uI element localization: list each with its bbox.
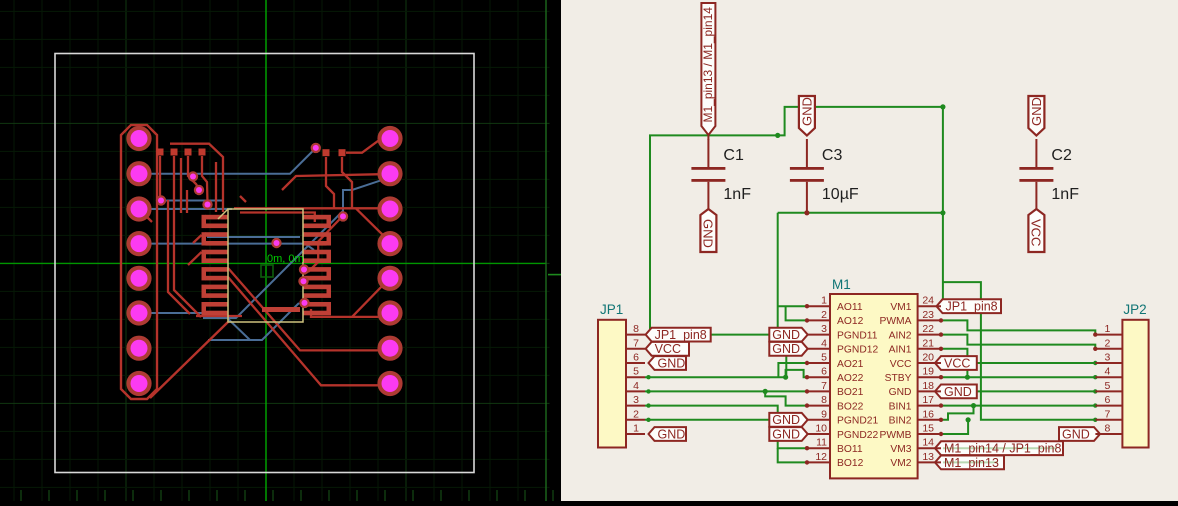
M1 right wire dots (939, 318, 943, 322)
blue trace pad L4 row (139, 244, 314, 250)
SMD bottom bar (262, 307, 300, 312)
supply flag GND above C3 (799, 96, 815, 136)
svg-text:7: 7 (821, 380, 827, 392)
svg-text:24: 24 (922, 295, 934, 307)
wire end dots JP1 (646, 375, 650, 379)
label GND at M1 pin 3 (769, 328, 807, 342)
svg-text:19: 19 (922, 366, 934, 378)
svg-text:15: 15 (922, 423, 934, 435)
svg-text:PGND22: PGND22 (837, 430, 878, 441)
svg-text:16: 16 (922, 408, 934, 420)
wire M1 pin17 to JP2 pin6 (941, 405, 1095, 407)
svg-text:4: 4 (633, 380, 639, 392)
JP2 pin 8 (1095, 433, 1122, 435)
wire (778, 107, 943, 135)
svg-text:AIN1: AIN1 (889, 345, 912, 356)
M1 pin 21 (AIN1) (918, 348, 941, 350)
wire M1 pin22 to JP2 pin2 (941, 335, 1095, 349)
capacitor C1 (707, 139, 709, 168)
svg-text:2: 2 (633, 408, 639, 420)
trace from square 4 (202, 156, 208, 202)
trace big diagonal (150, 322, 228, 398)
svg-text:VM1: VM1 (890, 302, 911, 313)
wire M1 pin15 jog (941, 420, 968, 434)
vias (156, 195, 166, 205)
wire (943, 282, 1095, 420)
wire (777, 213, 779, 330)
svg-text:BIN2: BIN2 (889, 416, 912, 427)
trace to pad R3 (240, 196, 246, 202)
svg-text:6: 6 (633, 352, 639, 364)
svg-text:PGND21: PGND21 (837, 416, 878, 427)
blue trace pad R2 long diagonal (203, 178, 388, 318)
M1 pin 2 (AO12) (807, 319, 830, 321)
trace from square 2 (174, 156, 201, 317)
svg-text:9: 9 (821, 408, 827, 420)
M1 pin 8 (BO22) (807, 405, 830, 407)
svg-text:8: 8 (1105, 423, 1111, 435)
svg-text:7: 7 (1105, 408, 1111, 420)
blue trace (161, 200, 224, 202)
M1 left wire dots (805, 304, 809, 308)
svg-text:STBY: STBY (885, 373, 912, 384)
JP1 pin 7 (626, 348, 645, 350)
svg-text:GND: GND (772, 413, 800, 427)
trace top-right to pad R1 (346, 139, 390, 153)
board outline (55, 54, 474, 473)
svg-text:4: 4 (1105, 366, 1111, 378)
label GND at JP2 pin 8 (1059, 427, 1100, 441)
svg-text:GND: GND (701, 219, 716, 248)
square pads top-right (323, 149, 330, 156)
JP1 pin 2 (626, 419, 645, 421)
svg-text:VM3: VM3 (890, 444, 911, 455)
blue trace pad L6 (139, 313, 250, 340)
wire JP1 pin5 row (645, 376, 786, 378)
M1 pin 22 (AIN2) (918, 334, 941, 336)
trace outline around left pads (121, 125, 157, 399)
svg-text:3: 3 (633, 394, 639, 406)
svg-text:VCC: VCC (944, 356, 970, 370)
wire M1 pin19 to JP2 pin4 (941, 376, 1095, 378)
JP2 pin 5 (1095, 390, 1122, 392)
wire JP1 pin8 to GND flag (711, 334, 770, 336)
svg-text:GND: GND (772, 342, 800, 356)
svg-text:GND: GND (799, 97, 814, 126)
svg-text:1nF: 1nF (1051, 186, 1079, 203)
svg-text:1nF: 1nF (723, 186, 751, 203)
label GND at M1 pin 4 (769, 342, 807, 356)
wire right vertical (942, 107, 944, 299)
trace diagonal bundle to pad R8 (228, 277, 390, 385)
svg-text:5: 5 (1105, 380, 1111, 392)
svg-text:1: 1 (821, 295, 827, 307)
wire jog to M1 pin8 (765, 391, 806, 405)
JP2 pin 1 (1095, 334, 1122, 336)
svg-text:6: 6 (1105, 394, 1111, 406)
svg-text:JP1_pin8: JP1_pin8 (655, 328, 707, 342)
wire VCC to JP2 pin3 (977, 362, 1096, 364)
IC footprint SMD pads left (206, 215, 229, 220)
svg-text:12: 12 (815, 451, 827, 463)
svg-text:13: 13 (922, 451, 934, 463)
svg-text:AIN2: AIN2 (889, 330, 912, 341)
label GND at M1 pin 10 (769, 427, 807, 441)
wire JP1 pin2 row (645, 419, 778, 421)
svg-text:JP1_pin8: JP1_pin8 (946, 300, 998, 314)
label GND at M1 pin 18 (935, 385, 977, 399)
origin marker (261, 265, 273, 277)
M1 pin 23 (PWMA) (918, 319, 941, 321)
wire to M1 pin1 (778, 305, 806, 307)
svg-text:AO22: AO22 (837, 373, 864, 384)
JP2 pin 4 (1095, 376, 1122, 378)
svg-text:VM2: VM2 (890, 458, 911, 469)
M1 pin 7 (BO21) (807, 390, 830, 392)
trace pad R5 (352, 278, 390, 317)
svg-text:17: 17 (922, 394, 934, 406)
JP1 pin 5 (626, 376, 645, 378)
svg-text:M1_pin13 / M1_pin14: M1_pin13 / M1_pin14 (701, 7, 715, 123)
svg-text:PWMA: PWMA (879, 316, 911, 327)
trace pad L3 stub (139, 209, 152, 222)
svg-text:AO11: AO11 (837, 302, 863, 313)
svg-text:PGND11: PGND11 (837, 330, 878, 341)
wire M1 pin21 down (941, 349, 967, 377)
M1 pin 5 (AO21) (807, 362, 830, 364)
svg-text:GND: GND (1029, 97, 1044, 126)
svg-text:M1_pin14 / JP1_pin8: M1_pin14 / JP1_pin8 (944, 442, 1061, 456)
svg-text:GND: GND (772, 328, 800, 342)
trace from square 1 (159, 156, 161, 197)
label VCC at JP1 pin 7 (646, 342, 689, 356)
wire (778, 212, 943, 214)
blue trace pad L2 to via (139, 148, 316, 174)
blue trace via diagonal (208, 303, 299, 340)
svg-text:0m, 0m: 0m, 0m (267, 253, 304, 265)
svg-text:M1: M1 (832, 277, 851, 292)
svg-text:GND: GND (944, 385, 972, 399)
trace from square 3 (188, 156, 199, 189)
svg-text:VCC: VCC (655, 342, 681, 356)
square pads top-left (157, 149, 164, 156)
M1 pin 18 (GND) (918, 390, 941, 392)
svg-text:GND: GND (658, 356, 686, 370)
svg-text:3: 3 (821, 323, 827, 335)
svg-text:JP2: JP2 (1123, 302, 1146, 317)
M1 pin 17 (BIN1) (918, 405, 941, 407)
svg-text:7: 7 (633, 337, 639, 349)
svg-text:C1: C1 (723, 147, 744, 164)
svg-text:14: 14 (922, 437, 934, 449)
supply flag VCC below C2 (1028, 209, 1044, 252)
svg-text:8: 8 (633, 323, 639, 335)
M1 pin 6 (AO22) (807, 376, 830, 378)
junction dots top (775, 133, 780, 138)
M1 pin 1 (AO11) (807, 305, 830, 307)
svg-text:6: 6 (821, 366, 827, 378)
svg-text:BIN1: BIN1 (889, 401, 912, 412)
trace to bars (240, 213, 315, 223)
svg-text:PGND12: PGND12 (837, 345, 878, 356)
label M1_pin13 / M1_pin14 (vertical) (701, 3, 715, 135)
svg-text:VCC: VCC (1029, 219, 1044, 246)
svg-text:BO22: BO22 (837, 401, 864, 412)
svg-text:22: 22 (922, 323, 934, 335)
trace stub verticals (180, 158, 182, 213)
svg-text:M1_pin13: M1_pin13 (944, 456, 999, 470)
M1 pin 9 (PGND21) (807, 419, 830, 421)
JP2 pin 6 (1095, 405, 1122, 407)
origin axes (265, 0, 267, 501)
M1 pin 11 (BO11) (807, 447, 830, 449)
M1 pin 16 (BIN2) (918, 419, 941, 421)
svg-text:21: 21 (922, 337, 934, 349)
svg-text:GND: GND (658, 427, 686, 441)
wire JP1 pin3 row (645, 406, 806, 449)
trace branch to pad R4 (356, 208, 390, 241)
through-hole pads left column (126, 126, 151, 151)
svg-text:BO21: BO21 (837, 387, 864, 398)
trace diagonal bundle to pad R7 (228, 268, 390, 350)
blue trace (207, 236, 300, 238)
svg-text:JP1: JP1 (600, 302, 623, 317)
JP1 pin 1 (626, 433, 645, 435)
label JP1_pin8 at JP1 pin 8 (646, 328, 711, 342)
trace under IC (196, 315, 242, 317)
label JP1_pin8 at M1 pin 24 (937, 299, 1002, 313)
JP2 pin 2 (1095, 348, 1122, 350)
svg-text:GND: GND (1062, 427, 1090, 441)
svg-text:18: 18 (922, 380, 934, 392)
trace right bars feeds (326, 157, 334, 208)
through-hole pads right column (377, 126, 402, 151)
JP2 pin 7 (1095, 419, 1122, 421)
JP1 pin 8 (626, 334, 645, 336)
JP1 pin 6 (626, 362, 645, 364)
supply flag GND above C2 (1028, 96, 1044, 136)
blue trace pad L3 row (139, 208, 232, 210)
svg-text:10µF: 10µF (822, 186, 859, 203)
svg-text:PWMB: PWMB (879, 430, 911, 441)
svg-text:BO12: BO12 (837, 458, 864, 469)
M1 pin 13 (VM2) (918, 461, 941, 463)
svg-text:5: 5 (633, 366, 639, 378)
M1 pin 15 (PWMB) (918, 433, 941, 435)
trace vertical 2 (168, 200, 190, 314)
wire net GND top-left (650, 135, 778, 330)
svg-text:11: 11 (816, 437, 827, 449)
M1 pin 4 (PGND12) (807, 348, 830, 350)
component courtyard (yellow) (228, 209, 303, 322)
svg-text:VCC: VCC (890, 359, 912, 370)
label VCC at M1 pin 20 (935, 356, 977, 370)
JP1 pin 3 (626, 405, 645, 407)
IC footprint SMD pads right (303, 215, 327, 220)
JP2 pin 3 (1095, 362, 1122, 364)
M1 pin 19 (STBY) (918, 376, 941, 378)
svg-text:8: 8 (821, 394, 827, 406)
svg-text:1: 1 (633, 423, 639, 435)
supply flag GND below C1 (700, 209, 716, 252)
wire to M1 pin12 (778, 448, 806, 462)
capacitor C2 (1035, 139, 1037, 168)
svg-text:AO21: AO21 (837, 359, 864, 370)
svg-text:5: 5 (821, 352, 827, 364)
svg-text:1: 1 (1105, 323, 1111, 335)
svg-text:2: 2 (1105, 337, 1111, 349)
svg-text:GND: GND (772, 427, 800, 441)
JP1 pin 4 (626, 390, 645, 392)
svg-text:GND: GND (889, 387, 912, 398)
svg-text:3: 3 (1105, 352, 1111, 364)
svg-text:BO11: BO11 (837, 444, 863, 455)
wire M1 pin16 jog (941, 406, 974, 420)
capacitor C3 (806, 139, 808, 168)
wire jog to M1 pin2 (786, 306, 806, 320)
wire GND to JP2 pin5 (977, 390, 1096, 392)
svg-text:AO12: AO12 (837, 316, 864, 327)
M1 pin 12 (BO12) (807, 461, 830, 463)
M1 pin 10 (PGND22) (807, 433, 830, 435)
M1 pin 3 (PGND11) (807, 334, 830, 336)
label GND at JP1 pin 6 (649, 356, 687, 370)
JP2 wire end dots (1093, 361, 1097, 365)
label M1_pin13 at M1 pin 13 (935, 456, 1004, 470)
svg-text:23: 23 (922, 309, 934, 321)
wire M1 pin23 to JP2 pin1 (941, 320, 1095, 334)
svg-text:4: 4 (821, 337, 827, 349)
svg-text:C3: C3 (822, 147, 843, 164)
M1 pin 14 (VM3) (918, 447, 941, 449)
svg-text:10: 10 (815, 423, 827, 435)
M1 pin 20 (VCC) (918, 362, 941, 364)
svg-text:20: 20 (922, 352, 934, 364)
label M1_pin14 / JP1_pin8 at M1 pin 14 (935, 441, 1063, 455)
svg-text:C2: C2 (1051, 147, 1072, 164)
label GND at M1 pin 9 (769, 413, 807, 427)
svg-text:2: 2 (821, 309, 827, 321)
wire M1 pin5/6 cluster (778, 363, 806, 377)
trace top outline (170, 144, 223, 212)
trace via to bars (308, 216, 342, 272)
trace to pad R6 (311, 309, 390, 317)
trace to pad R2 (282, 174, 390, 190)
label GND at JP1 pin 1 (649, 427, 687, 441)
wire JP1 pin4 row to M1 pin7 (645, 390, 806, 392)
trace left bar exits (193, 235, 202, 243)
M1 pin 24 (VM1) (918, 305, 941, 307)
